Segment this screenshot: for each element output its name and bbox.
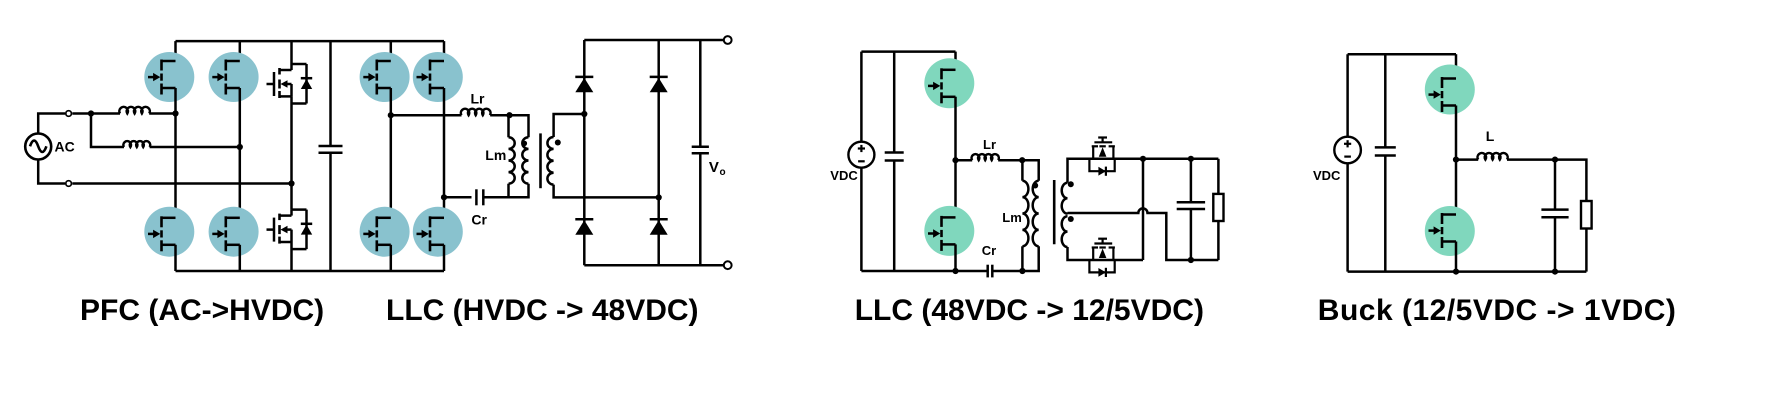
- dc-link capacitor C1: [319, 146, 343, 153]
- wire leg mid Q9-Q10: [443, 88, 446, 218]
- polarity dot (T2 sec top): [1068, 181, 1074, 187]
- wire output+ rail: [1143, 158, 1218, 161]
- SR MOSFET Q14: [1089, 239, 1115, 277]
- load resistor (middle): [1213, 194, 1223, 221]
- terminal Vo+: [724, 36, 732, 44]
- transistor Q3 (GaN hi-side): [209, 52, 259, 102]
- wire leg source Q2: [174, 245, 177, 271]
- terminal: [66, 111, 72, 117]
- wire to load resistor: [1217, 159, 1220, 194]
- svg-text:Cr: Cr: [982, 243, 996, 258]
- wire leg drain Q1: [174, 41, 177, 61]
- transistor Q9 (GaN hi-side): [413, 52, 463, 102]
- node B: [1019, 157, 1025, 163]
- wire leg drain Q11: [954, 52, 957, 70]
- transformer T2 secondary top half: [1062, 183, 1068, 214]
- svg-text:Lr: Lr: [471, 91, 486, 107]
- node leg bottom (buck): [1453, 269, 1459, 275]
- wire output- rail: [1191, 259, 1219, 262]
- wire Lr to node A: [490, 114, 509, 117]
- polarity dot (primary): [522, 141, 528, 147]
- svg-text:LLC (48VDC -> 12/5VDC): LLC (48VDC -> 12/5VDC): [855, 294, 1204, 327]
- wire SR1 rail: [1081, 158, 1143, 161]
- label VDC (buck): [1313, 168, 1341, 183]
- svg-text:VDC: VDC: [830, 168, 858, 183]
- wire Lr2 to node: [998, 159, 1022, 162]
- wire input cap bottom lead: [1384, 156, 1387, 272]
- AC source V1: [25, 134, 51, 160]
- wire center tap with hop: [1068, 208, 1191, 260]
- transistor Q5 (Si MOSFET w/ body diode): [267, 64, 313, 104]
- node cap top: [1188, 156, 1194, 162]
- bottom rail wire: [861, 270, 955, 273]
- wire node B to primary top: [1022, 160, 1038, 181]
- diode D3: [575, 219, 593, 234]
- node on leg E: [388, 112, 394, 118]
- wire secondary top to bridge: [554, 114, 585, 137]
- wire input cap top lead: [1384, 54, 1387, 147]
- transistor Q16 (GaN lo-side): [1425, 206, 1475, 256]
- top rail wire: [861, 50, 955, 53]
- wire leg drain Q15: [1455, 54, 1458, 78]
- wire output cap top lead: [699, 40, 702, 147]
- node leg bottom: [952, 268, 958, 274]
- node output cap bottom: [1552, 269, 1558, 275]
- wire node down-right to L2: [91, 114, 124, 148]
- wire output cap bottom lead: [699, 153, 702, 265]
- wire terminal to node: [72, 112, 91, 115]
- wire input cap top lead: [893, 52, 896, 153]
- label L: [1486, 128, 1495, 144]
- wire secondary bottom to bridge: [554, 185, 659, 198]
- wire Cr net: [444, 196, 472, 199]
- node on leg A: [172, 110, 178, 116]
- resonant inductor Lr (middle): [972, 154, 999, 160]
- SR MOSFET Q13: [1089, 138, 1115, 176]
- transformer T1 core: [539, 133, 542, 188]
- node SR out: [1140, 156, 1146, 162]
- transformer T1 secondary winding: [547, 137, 553, 185]
- wire AC- to terminal: [38, 160, 65, 184]
- transistor Q4 (GaN lo-side): [209, 207, 259, 257]
- label Buck (12/5VDC -&gt; 1VDC): [1318, 294, 1677, 327]
- wire L to output node: [1507, 158, 1555, 161]
- label LLC (48VDC -&gt; 12/5VDC): [855, 294, 1204, 327]
- transistor Q10 (GaN lo-side): [413, 207, 463, 257]
- wire SR2 rail: [1081, 259, 1143, 262]
- label PFC (AC-&gt;HVDC): [80, 294, 324, 327]
- transistor Q1 (GaN hi-side): [144, 52, 194, 102]
- input capacitor (buck): [1375, 147, 1396, 155]
- label Cr: [471, 212, 487, 228]
- rectifier top rail: [584, 39, 724, 42]
- wire output cap bottom lead: [1190, 209, 1193, 260]
- wire mid to L: [1456, 158, 1478, 161]
- wire dc-link cap top lead: [329, 41, 332, 146]
- transistor Q7 (GaN hi-side): [360, 52, 410, 102]
- wire leg mid: [954, 97, 957, 218]
- terminal: [66, 181, 72, 187]
- node (phase split): [88, 110, 94, 116]
- node on leg C: [288, 180, 294, 186]
- wire SR2 up to output+: [1142, 159, 1145, 260]
- wire load resistor bottom: [1217, 221, 1220, 260]
- label VDC: [830, 168, 858, 183]
- wire input cap bottom lead: [893, 161, 896, 272]
- wire leg source Q12: [954, 244, 957, 271]
- wire terminal to leg C: [72, 182, 291, 185]
- DC source V3: [1334, 137, 1361, 164]
- wire primary bottom lead: [1022, 246, 1038, 271]
- wire leg source Q10: [443, 245, 446, 271]
- wire Lm bottom lead: [507, 184, 510, 198]
- wire output cap top lead: [1554, 160, 1557, 210]
- buck inductor L: [1477, 153, 1507, 160]
- bridge leg 1 wire: [583, 40, 586, 265]
- svg-text:Buck (12/5VDC -> 1VDC): Buck (12/5VDC -> 1VDC): [1318, 294, 1677, 327]
- wire leg mid: [1455, 106, 1458, 215]
- wire leg mid Q1-Q2: [174, 88, 177, 218]
- boost inductor L1: [119, 107, 150, 114]
- node Lm2 bottom: [1019, 268, 1025, 274]
- wire leg mid Q3-Q4: [239, 88, 242, 218]
- transistor Q6 (Si MOSFET w/ body diode): [267, 210, 313, 250]
- output capacitor Co: [692, 147, 709, 154]
- wire primary bottom lead: [509, 184, 529, 198]
- output capacitor (buck): [1541, 210, 1568, 218]
- bottom rail wire (HVDC-): [176, 270, 445, 273]
- wire leg drain Q3: [239, 41, 242, 61]
- node output+: [1552, 157, 1558, 163]
- label Cr (middle): [982, 243, 996, 258]
- wire node A to primary top: [510, 115, 529, 137]
- label Vo: [709, 159, 726, 178]
- wire leg drain Q5: [290, 41, 293, 64]
- label Lr: [471, 91, 486, 107]
- wire secondary bottom lead: [1068, 247, 1082, 260]
- polarity dot (T2 sec bottom): [1068, 216, 1074, 222]
- wire output to resistor top: [1555, 160, 1586, 201]
- wire leg source Q4: [239, 245, 242, 271]
- wire leg E to Lr: [391, 114, 462, 117]
- wire node B down to Lm2: [1021, 160, 1024, 181]
- wire AC+ to terminal: [38, 114, 65, 134]
- label Lm (middle): [1002, 210, 1022, 225]
- label Lr (middle): [983, 137, 996, 152]
- node cap bottom: [1188, 257, 1194, 263]
- wire L1 to leg A: [149, 112, 175, 115]
- node A: [506, 112, 512, 118]
- output capacitor (middle): [1177, 202, 1205, 209]
- node on leg B: [237, 144, 243, 150]
- wire secondary top lead: [1068, 159, 1082, 183]
- wire V2 top lead: [860, 52, 863, 142]
- svg-text:VDC: VDC: [1313, 168, 1341, 183]
- svg-text:LLC (HVDC -> 48VDC): LLC (HVDC -> 48VDC): [386, 294, 699, 327]
- wire V2 bottom lead: [860, 168, 863, 271]
- node on leg F: [441, 194, 447, 200]
- transformer T2 primary winding: [1033, 181, 1039, 247]
- resonant capacitor Cr: [476, 189, 508, 205]
- transistor Q11 (GaN hi-side): [924, 58, 974, 108]
- wire leg source Q6: [290, 242, 293, 271]
- svg-text:L: L: [1486, 128, 1495, 144]
- transistor Q12 (GaN lo-side): [924, 206, 974, 256]
- wire leg source Q16: [1455, 242, 1458, 272]
- polarity dot (T2 primary): [1032, 183, 1038, 189]
- wire leg mid Q5-Q6: [290, 96, 293, 209]
- node (sec- on leg2): [656, 194, 662, 200]
- terminal Vo-: [724, 261, 732, 269]
- polarity dot (secondary): [555, 140, 561, 146]
- wire leg mid Q7-Q8: [390, 88, 393, 218]
- svg-text:AC: AC: [55, 139, 75, 155]
- diode D2: [650, 77, 668, 92]
- wire leg drain Q7: [390, 41, 393, 61]
- node half-bridge mid: [952, 157, 958, 163]
- node (sec+ on leg1): [581, 111, 587, 117]
- rectifier bottom rail: [584, 264, 724, 267]
- transformer T2 secondary bottom half: [1062, 216, 1068, 247]
- node switch mid: [1453, 157, 1459, 163]
- transformer T1 primary winding: [522, 137, 528, 183]
- wire V3 top lead: [1346, 54, 1349, 137]
- wire mid to Lr2: [956, 159, 973, 162]
- magnetizing inductor Lm: [509, 137, 515, 183]
- bottom rail wire (buck): [1348, 270, 1587, 273]
- svg-text:Lm: Lm: [1002, 210, 1022, 225]
- wire leg drain Q9: [443, 41, 446, 61]
- diode D4: [650, 219, 668, 234]
- wire output cap bottom lead: [1554, 217, 1557, 271]
- svg-text:o: o: [720, 167, 726, 178]
- top rail wire (HVDC+): [176, 40, 445, 43]
- label AC: [55, 139, 75, 155]
- wire output cap top lead: [1190, 159, 1193, 202]
- load resistor (buck): [1581, 201, 1592, 229]
- transistor Q15 (GaN hi-side): [1425, 65, 1475, 115]
- wire dc-link cap bottom lead: [329, 153, 332, 271]
- DC source V2: [848, 142, 874, 168]
- svg-text:V: V: [709, 159, 719, 176]
- top rail wire (buck): [1348, 53, 1456, 56]
- label Lm: [485, 147, 506, 163]
- svg-text:Lm: Lm: [485, 147, 506, 163]
- input capacitor: [885, 153, 904, 161]
- wire to L1: [91, 112, 120, 115]
- magnetizing inductor Lm (middle): [1022, 181, 1028, 247]
- wire leg source Q8: [390, 245, 393, 271]
- wire node A down to Lm: [507, 115, 510, 137]
- transistor Q8 (GaN lo-side): [360, 207, 410, 257]
- wire L2 to leg B: [150, 146, 240, 149]
- wire Lm2 bottom lead: [1021, 246, 1024, 271]
- svg-text:Cr: Cr: [471, 212, 487, 228]
- svg-text:Lr: Lr: [983, 137, 996, 152]
- wire load resistor bottom (buck): [1585, 229, 1588, 272]
- transformer T2 core: [1053, 180, 1056, 244]
- bridge leg 2 wire: [657, 40, 660, 265]
- svg-text:PFC (AC->HVDC): PFC (AC->HVDC): [80, 294, 324, 327]
- diode D1: [575, 77, 593, 92]
- transistor Q2 (GaN lo-side): [144, 207, 194, 257]
- wire V3 bottom lead: [1346, 163, 1349, 271]
- resonant inductor Lr: [461, 109, 491, 115]
- label LLC (HVDC -&gt; 48VDC): [386, 294, 699, 327]
- resonant capacitor Cr (middle): [956, 265, 1023, 278]
- boost inductor L2: [123, 141, 150, 147]
